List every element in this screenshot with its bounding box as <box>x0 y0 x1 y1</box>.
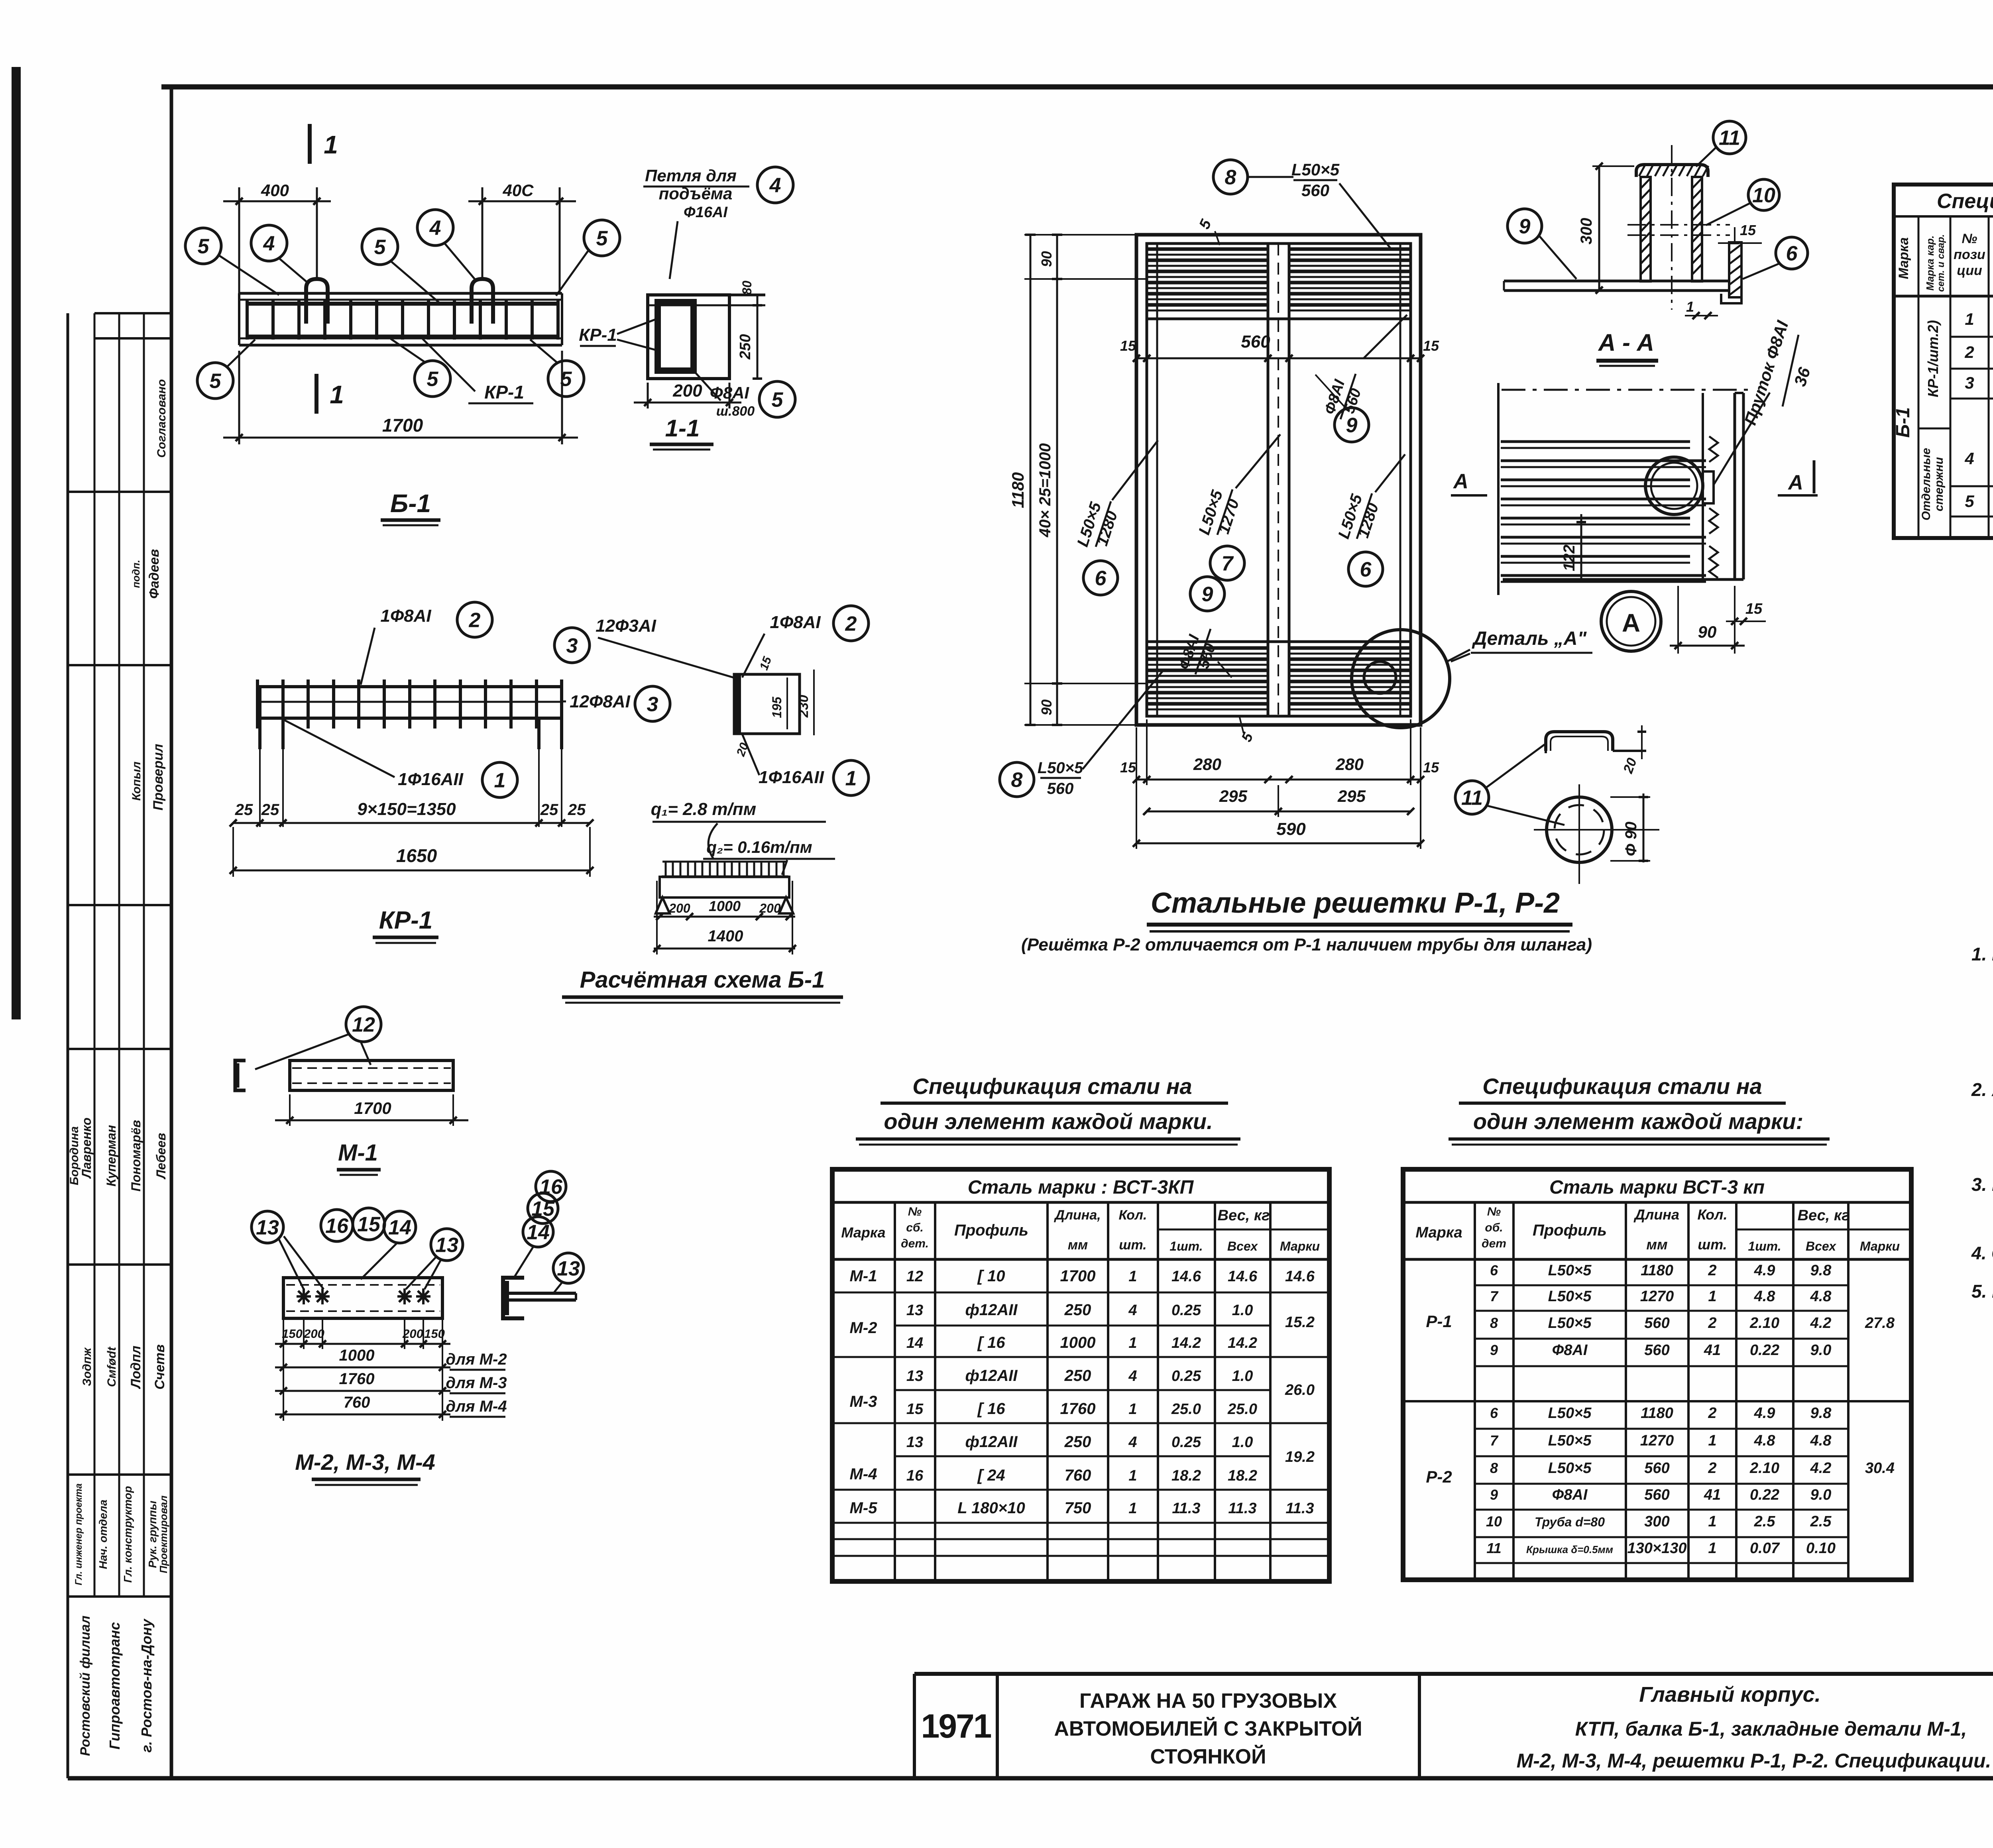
svg-text:300: 300 <box>1644 1513 1669 1530</box>
svg-text:8: 8 <box>1490 1315 1498 1331</box>
svg-text:13: 13 <box>906 1302 923 1319</box>
svg-text:10: 10 <box>1486 1513 1502 1530</box>
svg-text:26.0: 26.0 <box>1285 1382 1315 1398</box>
label КР-1 with leader <box>423 339 533 403</box>
svg-text:Ф8АІ: Ф8АІ <box>1552 1487 1588 1503</box>
title А-А <box>1596 329 1658 366</box>
svg-text:25: 25 <box>540 801 558 819</box>
svg-text:1760: 1760 <box>339 1370 375 1388</box>
svg-text:4.8: 4.8 <box>1754 1288 1776 1305</box>
svg-text:дет: дет <box>1482 1237 1506 1250</box>
title Б-1 <box>381 489 440 525</box>
ring Ф90 view <box>1534 784 1659 884</box>
left table texts <box>841 1177 1320 1517</box>
svg-text:Пономарёв: Пономарёв <box>129 1120 143 1192</box>
svg-text:9.8: 9.8 <box>1810 1405 1832 1422</box>
svg-text:14: 14 <box>527 1221 550 1244</box>
svg-text:6: 6 <box>1786 242 1798 265</box>
row 2 (pos.2) <box>1964 334 1993 361</box>
callout circle 12 <box>255 1007 381 1069</box>
svg-text:мм: мм <box>1068 1237 1088 1253</box>
caption Стальные решетки Р-1, Р-2 <box>1147 887 1572 931</box>
svg-text:90: 90 <box>1698 623 1717 641</box>
svg-text:Гл. инженер проекта: Гл. инженер проекта <box>73 1483 84 1585</box>
dim Ф90 <box>1610 793 1650 862</box>
svg-text:11: 11 <box>1719 127 1740 150</box>
grating center division <box>1268 244 1289 716</box>
svg-text:Нач. отдела: Нач. отдела <box>97 1500 109 1569</box>
svg-text:14.2: 14.2 <box>1228 1335 1257 1351</box>
table: steel Р-1, Р-2 <box>1403 1169 1911 1580</box>
table: steel М-1..М-5 <box>832 1169 1329 1581</box>
dim 760 для М-4 <box>275 1394 507 1418</box>
rotated label L50x5/1280 circle 6 (left) <box>1074 440 1158 595</box>
svg-text:9.0: 9.0 <box>1810 1487 1832 1503</box>
dim 400 (left) <box>223 181 331 293</box>
svg-text:9: 9 <box>1490 1342 1498 1358</box>
label КР-1 (section) <box>579 319 658 351</box>
svg-text:один элемент каждой марки:: один элемент каждой марки: <box>1473 1109 1803 1134</box>
svg-text:9: 9 <box>1519 215 1531 238</box>
detail A right frame members <box>1503 393 1743 579</box>
svg-text:13: 13 <box>435 1234 458 1257</box>
cap pos.11 <box>1546 732 1640 753</box>
svg-text:Марка: Марка <box>1415 1224 1462 1241</box>
svg-text:Марки: Марки <box>1860 1239 1900 1253</box>
svg-text:1000: 1000 <box>1060 1334 1096 1351</box>
svg-text:Профиль: Профиль <box>954 1222 1028 1239</box>
svg-text:15: 15 <box>1120 759 1136 776</box>
svg-text:Р-2: Р-2 <box>1426 1467 1452 1486</box>
svg-text:4: 4 <box>429 217 441 240</box>
svg-text:25: 25 <box>235 801 253 819</box>
svg-text:150: 150 <box>282 1327 303 1341</box>
svg-text:3: 3 <box>1965 373 1974 392</box>
svg-text:2.5: 2.5 <box>1754 1513 1776 1530</box>
mesh КР-1 longitudinal wires <box>257 687 562 718</box>
svg-text:М-2, М-3, М-4, решетки Р-1,: М-2, М-3, М-4, решетки Р-1, Р-2. Специфи… <box>1517 1750 1991 1772</box>
svg-text:3: 3 <box>647 693 658 716</box>
title М-2, М-3, М-4 <box>295 1449 435 1485</box>
dims 150 200 / 200 150 <box>275 1327 450 1347</box>
svg-text:Согласовано: Согласовано <box>155 379 168 458</box>
section 1-1 dim 250 <box>737 281 762 379</box>
svg-text:[ 16: [ 16 <box>977 1400 1006 1418</box>
svg-text:Фадеев: Фадеев <box>147 549 162 599</box>
svg-text:Куперман: Куперман <box>104 1125 118 1186</box>
svg-text:12Ф3АІ: 12Ф3АІ <box>596 616 656 636</box>
svg-text:Кол.: Кол. <box>1119 1208 1147 1223</box>
svg-text:1650: 1650 <box>396 845 437 866</box>
svg-text:КР-1: КР-1 <box>484 382 524 403</box>
svg-text:15: 15 <box>906 1401 924 1418</box>
svg-text:250: 250 <box>1064 1433 1091 1451</box>
beam Б-1 stirrups (pos.5) <box>247 299 558 340</box>
svg-text:3. Материал конструкций-ста: 3. Материал конструкций-сталь марки В ст… <box>1971 1174 1993 1195</box>
svg-text:1760: 1760 <box>1060 1400 1096 1418</box>
mesh КР-1 cross wires <box>257 679 562 729</box>
svg-text:1: 1 <box>1686 299 1694 315</box>
svg-text:Марка кар.: Марка кар. <box>1924 236 1936 291</box>
svg-text:Крышка δ=0.5мм: Крышка δ=0.5мм <box>1526 1544 1613 1555</box>
svg-text:Профиль: Профиль <box>1533 1222 1607 1239</box>
callout 9 (top right, plate) <box>1508 209 1576 279</box>
svg-text:14: 14 <box>906 1335 923 1351</box>
svg-text:Рук. группы: Рук. группы <box>146 1500 159 1568</box>
beam Б-1 elevation: section marks 1 <box>310 124 344 414</box>
svg-text:295: 295 <box>1337 787 1366 805</box>
svg-text:4: 4 <box>1128 1368 1137 1385</box>
stud projection lines <box>283 1318 442 1421</box>
svg-text:1: 1 <box>1128 1268 1137 1285</box>
svg-text:Расчётная схема Б-1: Расчётная схема Б-1 <box>580 967 825 993</box>
svg-text:1Ф8АІ: 1Ф8АІ <box>770 613 821 632</box>
svg-text:Всех: Всех <box>1806 1239 1836 1253</box>
detail A bars <box>1501 442 1706 582</box>
cap dims 20 <box>1620 725 1646 776</box>
callout 13 (left pair) <box>252 1211 324 1289</box>
svg-text:2: 2 <box>1708 1460 1716 1477</box>
svg-text:стержни: стержни <box>1932 457 1946 511</box>
svg-text:Р-1: Р-1 <box>1426 1312 1452 1331</box>
svg-text:300: 300 <box>1578 218 1595 245</box>
dims 295 295 <box>1143 785 1414 817</box>
svg-text:1Ф8АІ: 1Ф8АІ <box>380 606 431 626</box>
table: Спецификация арматуры на 1 элемент <box>1894 185 1993 538</box>
svg-text:12: 12 <box>352 1013 375 1037</box>
svg-text:250: 250 <box>1064 1367 1091 1385</box>
svg-text:150: 150 <box>424 1327 445 1341</box>
svg-text:25.0: 25.0 <box>1227 1401 1257 1418</box>
svg-text:7: 7 <box>1222 552 1234 575</box>
svg-text:1: 1 <box>1708 1540 1716 1557</box>
svg-text:280: 280 <box>1193 755 1221 774</box>
svg-text:200: 200 <box>759 901 781 915</box>
note 3 <box>1971 1174 1993 1223</box>
svg-text:ф12АІІ: ф12АІІ <box>965 1433 1018 1451</box>
grating top bar bundle <box>1147 249 1411 319</box>
svg-text:0.22: 0.22 <box>1750 1342 1779 1359</box>
svg-text:15: 15 <box>1740 222 1756 238</box>
grating bottom bar bundle <box>1147 642 1411 709</box>
svg-text:1000: 1000 <box>709 898 741 914</box>
lifting loop pos.4 (left) <box>306 279 328 324</box>
svg-text:М-3: М-3 <box>850 1393 877 1410</box>
svg-text:11: 11 <box>1461 787 1483 810</box>
svg-text:L50×5: L50×5 <box>1291 160 1340 179</box>
svg-text:М-1: М-1 <box>338 1140 378 1166</box>
svg-text:Зодпж: Зодпж <box>81 1347 94 1386</box>
detail A mark circle А <box>1601 591 1661 651</box>
svg-text:4.8: 4.8 <box>1810 1288 1832 1305</box>
svg-text:13: 13 <box>906 1368 923 1385</box>
svg-text:30.4: 30.4 <box>1865 1460 1895 1477</box>
svg-text:4.2: 4.2 <box>1810 1315 1832 1332</box>
svg-text:Ростовский филиал: Ростовский филиал <box>78 1616 93 1756</box>
svg-text:11.3: 11.3 <box>1285 1500 1314 1517</box>
callout 11 (cap/ring) <box>1455 744 1565 825</box>
А-А angle (hatched) <box>1721 242 1741 303</box>
svg-text:Лебеев: Лебеев <box>154 1133 168 1180</box>
detail A top centerline <box>1502 389 1753 391</box>
load scheme beam <box>656 862 793 913</box>
svg-text:сет. и свар.: сет. и свар. <box>1936 234 1946 292</box>
bottom dims 15 280 280 15 <box>1120 719 1439 849</box>
svg-text:подп.: подп. <box>130 560 142 588</box>
svg-text:0.25: 0.25 <box>1171 1434 1201 1451</box>
svg-text:М-5: М-5 <box>850 1499 878 1517</box>
svg-text:1.0: 1.0 <box>1232 1368 1253 1385</box>
svg-text:(Решётка Р-2 отличается от: (Решётка Р-2 отличается от Р-1 наличием … <box>1021 935 1592 954</box>
svg-text:230: 230 <box>796 695 811 718</box>
row 4 (pos.4, bent bar sketch) <box>1964 428 1993 474</box>
svg-text:1: 1 <box>1128 1500 1137 1517</box>
svg-text:А: А <box>1787 471 1803 494</box>
beam Б-1 concrete outline <box>239 293 562 345</box>
svg-text:2: 2 <box>469 609 481 632</box>
А-А pipe walls (hatched) <box>1641 177 1702 281</box>
svg-text:14.2: 14.2 <box>1171 1335 1201 1351</box>
svg-text:6: 6 <box>1095 567 1107 590</box>
callout circles bottom row <box>197 339 584 399</box>
title block project name <box>1054 1689 1362 1768</box>
label 12Ф3АІ circle 3 <box>554 616 733 678</box>
svg-text:560: 560 <box>1644 1487 1669 1503</box>
svg-text:Марки: Марки <box>1280 1239 1320 1253</box>
svg-text:4.9: 4.9 <box>1754 1405 1775 1422</box>
svg-text:12: 12 <box>906 1268 923 1285</box>
svg-text:пози: пози <box>1954 247 1985 262</box>
svg-text:8: 8 <box>1011 769 1023 792</box>
svg-text:1971: 1971 <box>921 1707 991 1745</box>
svg-text:А - А: А - А <box>1598 329 1654 356</box>
svg-text:15: 15 <box>1423 759 1439 776</box>
svg-text:2: 2 <box>1708 1262 1716 1279</box>
svg-text:18.2: 18.2 <box>1228 1467 1257 1484</box>
svg-text:А: А <box>1622 609 1640 637</box>
svg-text:0.22: 0.22 <box>1750 1487 1779 1503</box>
svg-text:Марка: Марка <box>1896 238 1911 279</box>
mesh dim 1650 <box>230 827 594 877</box>
row 5 (pos.5) <box>1965 484 1993 511</box>
svg-text:5: 5 <box>427 368 439 391</box>
svg-text:Проверил: Проверил <box>151 744 166 810</box>
leader from detail circle to label <box>1447 650 1470 662</box>
svg-text:0.07: 0.07 <box>1750 1540 1780 1557</box>
svg-text:мм: мм <box>1646 1236 1667 1253</box>
svg-text:560: 560 <box>1644 1315 1669 1332</box>
rotated label L50x5/1280 circle 6 (right) <box>1335 454 1405 586</box>
label 1Ф8АІ circle 2 (mesh) <box>361 602 492 685</box>
svg-text:1180: 1180 <box>1008 472 1027 508</box>
svg-text:L50×5: L50×5 <box>1548 1315 1592 1332</box>
svg-text:4: 4 <box>769 174 781 197</box>
svg-text:Ф8АІ: Ф8АІ <box>1552 1342 1588 1359</box>
svg-text:№: № <box>1487 1205 1501 1218</box>
callout 13 (right pair) <box>406 1229 463 1289</box>
svg-text:Деталь „А": Деталь „А" <box>1472 628 1587 649</box>
svg-text:Ф 90: Ф 90 <box>1622 822 1640 856</box>
svg-text:2: 2 <box>845 613 857 636</box>
svg-text:1: 1 <box>1965 310 1974 328</box>
title Расчётная схема Б-1 <box>562 967 843 1003</box>
svg-text:18.2: 18.2 <box>1171 1467 1201 1484</box>
svg-text:3: 3 <box>566 634 578 658</box>
svg-text:ГАРАЖ НА 50 ГРУЗОВЫХ: ГАРАЖ НА 50 ГРУЗОВЫХ <box>1079 1689 1337 1712</box>
svg-text:2. Арматурные изделия изгото: 2. Арматурные изделия изготовить при по- <box>1971 1079 1993 1100</box>
title block sheet content <box>1517 1683 1991 1772</box>
top width dims 15 560 15 <box>1120 332 1439 362</box>
svg-text:Копыл: Копыл <box>130 762 143 801</box>
А-А pipe cap (hatched) <box>1636 165 1708 177</box>
svg-text:ш.800: ш.800 <box>716 404 755 419</box>
callout 8 with L50x5/560 (bottom) <box>1000 670 1164 797</box>
svg-text:М-1: М-1 <box>850 1267 877 1285</box>
svg-text:90: 90 <box>1038 699 1055 715</box>
label 1Ф16АІІ circle 1 (right) <box>742 734 869 795</box>
КР-1 cross-section detail <box>734 674 800 734</box>
svg-text:Смfødt: Смfødt <box>105 1346 118 1387</box>
svg-text:9.0: 9.0 <box>1810 1342 1832 1359</box>
svg-text:Спецификация стали на: Спецификация стали на <box>912 1074 1192 1099</box>
М-2..4 plate <box>283 1278 442 1318</box>
svg-text:5: 5 <box>1965 492 1974 511</box>
svg-text:КР-1/шт.2): КР-1/шт.2) <box>1925 320 1941 397</box>
svg-text:Гл. конструктор: Гл. конструктор <box>122 1486 134 1583</box>
label Ф8АІ ш.800 + circle 5 <box>694 371 795 419</box>
grating inner wall lines <box>1157 244 1400 716</box>
label 1Ф16АІІ circle 1 (left) <box>279 717 517 797</box>
А-А callout 6 <box>1743 237 1808 279</box>
svg-text:для М-4: для М-4 <box>446 1398 507 1415</box>
svg-text:14.6: 14.6 <box>1228 1268 1258 1285</box>
svg-text:9: 9 <box>1202 583 1213 606</box>
svg-text:4.2: 4.2 <box>1810 1460 1832 1477</box>
svg-text:Ф16АІ: Ф16АІ <box>684 204 728 221</box>
svg-text:Лавренко: Лавренко <box>79 1117 94 1179</box>
svg-text:4: 4 <box>1128 1302 1137 1319</box>
svg-text:для М-2: для М-2 <box>446 1351 507 1368</box>
svg-text:40C: 40C <box>502 181 534 200</box>
svg-text:9: 9 <box>1490 1487 1498 1503</box>
load q2 label <box>703 838 835 875</box>
svg-text:q₂= 0.16т/пм: q₂= 0.16т/пм <box>706 838 812 856</box>
svg-text:25.0: 25.0 <box>1171 1401 1201 1418</box>
svg-text:25: 25 <box>568 801 586 819</box>
svg-text:1шт.: 1шт. <box>1748 1239 1781 1253</box>
svg-text:13: 13 <box>256 1216 279 1239</box>
svg-text:4: 4 <box>1964 449 1974 468</box>
heading Спецификация стали (left) <box>856 1074 1240 1145</box>
svg-text:№: № <box>1962 231 1977 246</box>
svg-text:1700: 1700 <box>382 415 423 436</box>
svg-text:М-4: М-4 <box>850 1465 877 1483</box>
svg-text:Лодпл: Лодпл <box>128 1345 143 1389</box>
svg-text:560: 560 <box>1644 1342 1669 1359</box>
svg-text:1400: 1400 <box>708 927 743 945</box>
svg-text:760: 760 <box>1065 1467 1091 1484</box>
svg-text:2: 2 <box>1708 1315 1716 1332</box>
detail A circle on grating <box>1352 630 1450 728</box>
svg-text:Проектировал: Проектировал <box>157 1495 169 1573</box>
svg-text:6: 6 <box>1360 558 1372 581</box>
svg-text:590: 590 <box>1276 819 1306 839</box>
М-1 channel bar <box>290 1060 453 1090</box>
svg-text:1700: 1700 <box>1060 1267 1096 1285</box>
svg-text:L 180×10: L 180×10 <box>957 1499 1025 1517</box>
А-А dim 15 <box>1718 222 1762 243</box>
dim 1000 для М-2 <box>275 1347 507 1371</box>
mesh КР-1 bent-down legs <box>260 687 562 827</box>
svg-text:15: 15 <box>1423 338 1439 354</box>
svg-text:5: 5 <box>210 370 222 393</box>
svg-text:Сталь марки ВСТ-3 кп: Сталь марки ВСТ-3 кп <box>1549 1177 1765 1198</box>
section 1-1 outline <box>648 295 765 379</box>
svg-text:1: 1 <box>1708 1513 1716 1530</box>
svg-text:1: 1 <box>845 767 857 790</box>
svg-text:Вес, кг: Вес, кг <box>1218 1207 1270 1224</box>
svg-text:4.9: 4.9 <box>1754 1262 1775 1279</box>
row 1 (pos.1) <box>1965 301 1993 328</box>
svg-text:1шт.: 1шт. <box>1169 1239 1203 1253</box>
svg-text:М-2, М-3, М-4: М-2, М-3, М-4 <box>295 1449 435 1475</box>
svg-text:195: 195 <box>770 696 784 718</box>
svg-text:11.3: 11.3 <box>1228 1500 1256 1517</box>
svg-text:А: А <box>1452 470 1468 493</box>
svg-text:4: 4 <box>263 232 275 255</box>
svg-text:16: 16 <box>906 1467 924 1484</box>
small 5 thickness (bottom) <box>1238 717 1256 744</box>
svg-text:4.8: 4.8 <box>1754 1432 1776 1449</box>
svg-text:Отдельные: Отдельные <box>1920 448 1933 520</box>
anchor studs <box>297 1288 430 1304</box>
svg-text:сб.: сб. <box>906 1221 924 1234</box>
svg-text:2: 2 <box>1708 1405 1716 1422</box>
detail A dim 90 <box>1670 586 1745 654</box>
svg-text:Главный корпус.: Главный корпус. <box>1639 1683 1820 1707</box>
svg-text:1.0: 1.0 <box>1232 1434 1253 1451</box>
svg-text:280: 280 <box>1335 755 1364 774</box>
load scheme dims 200 1000 200 / 1400 <box>653 881 796 954</box>
svg-text:2.10: 2.10 <box>1749 1315 1779 1332</box>
small 5 thickness (top) <box>1196 217 1220 245</box>
svg-text:1180: 1180 <box>1641 1405 1673 1422</box>
svg-text:200: 200 <box>668 901 690 915</box>
svg-text:L50×5: L50×5 <box>1038 759 1083 777</box>
svg-text:122: 122 <box>1561 545 1578 571</box>
svg-text:Труба d=80: Труба d=80 <box>1535 1515 1605 1529</box>
svg-text:1: 1 <box>1708 1432 1716 1449</box>
svg-text:10: 10 <box>1752 184 1775 207</box>
svg-text:11: 11 <box>1486 1540 1501 1556</box>
svg-text:шт.: шт. <box>1698 1236 1727 1253</box>
svg-text:9: 9 <box>1346 414 1358 437</box>
scan edge bar left <box>12 67 21 1019</box>
section marks А-А arrows <box>1451 460 1818 495</box>
А-А base plate <box>1504 281 1728 291</box>
svg-text:1270: 1270 <box>1640 1432 1674 1449</box>
svg-text:L50×5: L50×5 <box>1548 1460 1592 1477</box>
svg-text:4. Сварку производить электр: 4. Сварку производить электродами Э-42 п… <box>1971 1243 1993 1263</box>
rotated label L50x5/1270 circle 7 (center) <box>1195 434 1280 580</box>
svg-text:2.5: 2.5 <box>1810 1513 1832 1530</box>
svg-text:q₁= 2.8 т/пм: q₁= 2.8 т/пм <box>651 799 756 819</box>
dim 1700 <box>223 351 578 444</box>
svg-text:ции: ции <box>1957 263 1982 278</box>
svg-text:200: 200 <box>672 381 702 401</box>
svg-text:1: 1 <box>494 769 506 792</box>
svg-text:400: 400 <box>261 181 289 200</box>
